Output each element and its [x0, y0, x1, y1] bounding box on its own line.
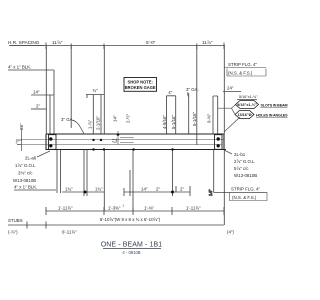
bolt right 2	[217, 144, 220, 147]
wire stud pair below beam left	[57, 150, 61, 193]
svg-text:1'-11⅞": 1'-11⅞"	[186, 206, 201, 211]
svg-text:3" GA.: 3" GA.	[186, 87, 199, 92]
svg-text:1⅞" G.O.L: 1⅞" G.O.L	[15, 163, 36, 168]
wire extension line x197	[196, 46, 198, 145]
bolt on beam x104	[103, 148, 105, 150]
svg-text:STRIP FLG. 4": STRIP FLG. 4"	[231, 187, 260, 192]
svg-text:11⅞": 11⅞"	[202, 40, 213, 45]
wire dim 14 line	[31, 95, 54, 134]
svg-text:BROKEN GAGE: BROKEN GAGE	[125, 85, 156, 90]
title ONE BEAM 1B1	[101, 242, 163, 256]
wire GA leader right	[188, 92, 189, 97]
svg-text:STRIP FLG. 4": STRIP FLG. 4"	[228, 62, 257, 67]
svg-text:4": 4"	[168, 90, 172, 95]
wire overall dim row y224	[8, 222, 224, 229]
svg-text:9/16"x1-½": 9/16"x1-½"	[237, 103, 257, 107]
svg-text:5-1/16": 5-1/16"	[171, 115, 176, 129]
wire lower gage line	[21, 144, 222, 146]
wire upper gage line	[21, 139, 224, 141]
wire stud pair below beam x215	[214, 150, 267, 193]
svg-text:13/16"Ø: 13/16"Ø	[237, 113, 251, 117]
svg-text:ONE - BEAM - 1B1: ONE - BEAM - 1B1	[101, 242, 163, 249]
wire dim 24 line	[223, 91, 241, 93]
svg-text:5⅞" c/c: 5⅞" c/c	[234, 166, 249, 171]
bolt on beam x133	[133, 148, 135, 150]
svg-text:(4"): (4")	[227, 230, 234, 235]
wire gage extension x71	[70, 46, 72, 128]
wire extension x190 below beam	[189, 186, 191, 196]
svg-text:2L-b1: 2L-b1	[234, 152, 246, 157]
wire dim line y192 mid	[124, 188, 190, 196]
bolt on beam x86	[92, 139, 94, 141]
wire hex leader 1	[218, 105, 236, 109]
svg-text:1'-⅜": 1'-⅜"	[144, 206, 154, 211]
svg-text:H.R. SPACING: H.R. SPACING	[8, 40, 40, 45]
bolt right 1	[217, 137, 220, 140]
wire pair right above beam	[213, 96, 218, 134]
svg-text:4 - 0810B: 4 - 0810B	[122, 250, 140, 255]
svg-text:2L-a6: 2L-a6	[25, 156, 37, 161]
svg-text:9-⅜": 9-⅜"	[207, 113, 212, 123]
node tick left gage	[16, 140, 22, 145]
callout hexagon slots	[236, 101, 288, 109]
svg-text:24": 24"	[227, 86, 234, 91]
wire stud pair below beam x130	[130, 150, 133, 211]
shop note box	[124, 78, 157, 92]
connection angle 2L-b1 right	[215, 134, 223, 150]
svg-text:14": 14"	[113, 115, 118, 122]
wire dim row y211	[46, 207, 224, 215]
wire blockout underline lower left	[14, 189, 56, 191]
svg-text:STUBS: STUBS	[8, 218, 23, 223]
svg-text:W13-0810B: W13-0810B	[13, 178, 36, 183]
svg-text:3" GA.: 3" GA.	[61, 117, 74, 122]
wire leader right connection	[224, 150, 232, 154]
svg-text:1¾": 1¾"	[95, 187, 103, 192]
svg-text:2": 2"	[156, 187, 160, 192]
svg-text:W13-0810B: W13-0810B	[234, 173, 257, 178]
wire hex leader 2	[232, 108, 236, 114]
wire top flange line	[46, 133, 224, 135]
svg-text:3⅛" c/c: 3⅛" c/c	[18, 171, 33, 176]
wire dim 3/4 line	[86, 95, 104, 135]
svg-text:4" x 1" BLK.: 4" x 1" BLK.	[8, 65, 31, 70]
svg-text:(N.S. & F.S.): (N.S. & F.S.)	[228, 71, 253, 76]
wire dim line y192 left	[62, 191, 104, 193]
wire blockout leader upper left	[8, 70, 54, 134]
wire leader left connection	[37, 151, 50, 157]
bolt on dim x86	[84, 191, 87, 194]
svg-text:1'-11⅞": 1'-11⅞"	[58, 206, 73, 211]
beam 1B1 outline	[46, 134, 226, 150]
svg-text:5-1/16": 5-1/16"	[192, 112, 197, 126]
wire left end edge	[45, 134, 47, 150]
svg-text:SHOP NOTE:: SHOP NOTE:	[127, 80, 152, 85]
svg-text:HOLES IN ANGLES: HOLES IN ANGLES	[256, 114, 288, 118]
bolt on dim x172	[171, 191, 174, 194]
svg-text:1'-3⅜": 1'-3⅜"	[108, 206, 121, 211]
svg-text:1¾": 1¾"	[65, 187, 73, 192]
bolt left 2	[49, 144, 52, 147]
wire stud pair below beam x172	[173, 150, 177, 196]
svg-text:2-½": 2-½"	[126, 113, 131, 123]
svg-text:6'-11⅞": 6'-11⅞"	[62, 230, 77, 235]
bolt left 1	[49, 137, 52, 140]
svg-text:2": 2"	[180, 187, 184, 192]
wire extension line right beam end	[223, 46, 225, 134]
svg-text:SLOTS IN BEAM: SLOTS IN BEAM	[261, 104, 288, 108]
svg-text:4" x 1" BLK.: 4" x 1" BLK.	[14, 185, 37, 190]
svg-text:26": 26"	[19, 123, 24, 130]
svg-text:5/16"x1-¾": 5/16"x1-¾"	[239, 95, 258, 99]
svg-text:14": 14"	[208, 189, 213, 196]
wire dim 2 line	[31, 108, 46, 110]
wire extension line left beam end	[45, 46, 47, 134]
node weld mark	[117, 133, 120, 136]
svg-text:2⅞" G.O.L: 2⅞" G.O.L	[234, 159, 255, 164]
wire stud pair mid-left above beam	[167, 96, 176, 134]
svg-text:(N.S. & F.S.): (N.S. & F.S.)	[232, 195, 257, 200]
svg-text:5'-0": 5'-0"	[146, 40, 156, 45]
svg-text:(-⅞"): (-⅞")	[8, 230, 18, 235]
wire extension line x104	[103, 46, 105, 134]
svg-text:2-1/16": 2-1/16"	[95, 116, 100, 130]
wire stud pair below beam x85	[84, 150, 87, 196]
svg-text:2": 2"	[36, 104, 40, 109]
svg-text:4-9/16": 4-9/16"	[162, 115, 167, 129]
wire left gage extension vertical	[20, 129, 22, 152]
wire right end edge	[223, 134, 225, 150]
wire right end extension below beam	[223, 150, 225, 225]
wire GA leader left	[73, 120, 85, 135]
wire extension x104 below beam	[103, 150, 105, 211]
svg-text:1-⅞": 1-⅞"	[88, 119, 93, 129]
wire small label underline right	[237, 99, 257, 101]
bolt on beam x172	[171, 148, 173, 150]
svg-text:14": 14"	[141, 187, 148, 192]
node tick marks on top dim line	[46, 43, 224, 50]
wire gage extension x190	[188, 93, 190, 134]
callout hexagon holes	[235, 111, 288, 119]
svg-text:¾": ¾"	[93, 88, 99, 93]
svg-text:14": 14"	[33, 90, 40, 95]
wire bottom flange line	[46, 149, 226, 151]
wire top dimension line	[10, 45, 225, 47]
wire leader slots to beam corner	[224, 117, 240, 132]
stud detail box mid beam	[118, 131, 134, 145]
connection angle 2L-a6 left	[49, 134, 57, 150]
svg-text:11⅞": 11⅞"	[52, 40, 63, 45]
svg-text:6'-10⅞"(W 8 x 8 x ¾ x 6'-10⅞"): 6'-10⅞"(W 8 x 8 x ¾ x 6'-10⅞")	[100, 217, 161, 222]
